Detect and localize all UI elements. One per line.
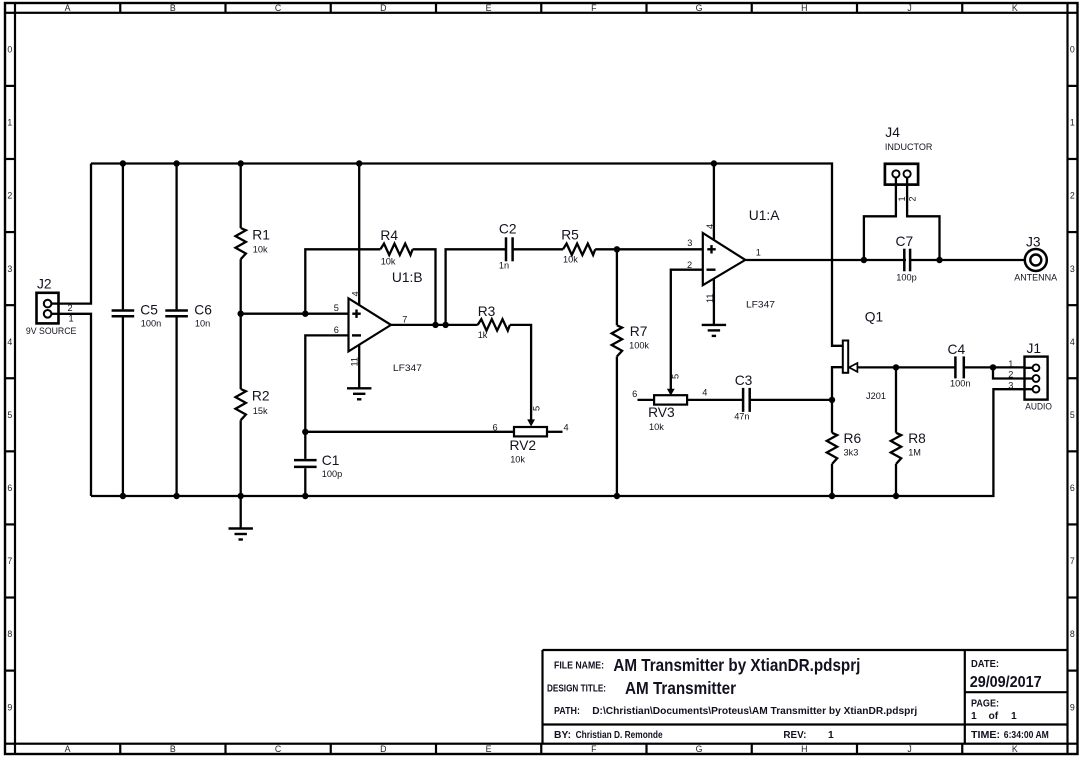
RV2 pin 4 stub	[547, 431, 563, 433]
svg-text:G: G	[696, 744, 703, 754]
svg-text:E: E	[486, 3, 492, 13]
svg-text:B: B	[170, 744, 176, 754]
svg-text:R6: R6	[844, 431, 862, 446]
svg-text:C7: C7	[896, 234, 914, 249]
J1 pin stubs inside box	[1025, 367, 1033, 369]
svg-text:BY:: BY:	[554, 730, 571, 741]
svg-text:REV:: REV:	[783, 730, 806, 741]
svg-text:J201: J201	[866, 391, 886, 401]
svg-text:LF347: LF347	[746, 300, 775, 310]
svg-text:100p: 100p	[896, 272, 916, 282]
svg-text:6: 6	[493, 422, 498, 432]
svg-text:6: 6	[1070, 483, 1075, 493]
resistor R2	[240, 314, 242, 389]
svg-text:R8: R8	[908, 431, 926, 446]
RV2 pin 6 wire from C1 node	[305, 431, 514, 433]
capacitor C2	[505, 237, 508, 261]
svg-text:3: 3	[7, 264, 12, 274]
svg-text:D: D	[380, 744, 386, 754]
wire: pin 2 to RV3 wiper	[671, 270, 703, 389]
resistor R4	[305, 249, 380, 313]
wire: ground bottom rail, riser to J1 pin 3	[91, 389, 1032, 496]
capacitor C3	[742, 388, 745, 412]
svg-text:1: 1	[756, 247, 761, 257]
svg-text:AM Transmitter by XtianDR.pdsp: AM Transmitter by XtianDR.pdsprj	[613, 655, 860, 675]
connector J1 AUDIO	[1025, 357, 1048, 400]
svg-text:G: G	[696, 3, 703, 13]
svg-text:B: B	[170, 3, 176, 13]
svg-text:4: 4	[705, 224, 715, 229]
svg-text:15k: 15k	[253, 406, 268, 416]
svg-text:K: K	[1012, 744, 1018, 754]
svg-text:R3: R3	[478, 304, 496, 319]
capacitor C4	[954, 356, 957, 378]
svg-text:10k: 10k	[649, 422, 664, 432]
wire: left rail upper segment to J2 pin 2	[59, 164, 92, 304]
frame corner ticks	[14, 3, 16, 13]
svg-text:J4: J4	[885, 125, 900, 140]
connector J4 INDUCTOR	[885, 164, 918, 185]
wire: C2 branch riser	[446, 249, 506, 325]
wire: U1:B pin7 output to R3	[391, 324, 478, 326]
svg-text:6: 6	[632, 389, 637, 399]
svg-text:7: 7	[7, 556, 12, 566]
svg-text:2: 2	[687, 260, 692, 270]
svg-text:U1:B: U1:B	[392, 270, 423, 285]
capacitor C1	[304, 432, 306, 459]
svg-text:4: 4	[7, 337, 12, 347]
svg-text:FILE NAME:: FILE NAME:	[554, 660, 604, 671]
svg-text:6:34:00 AM: 6:34:00 AM	[1004, 730, 1049, 741]
svg-text:2: 2	[7, 191, 12, 201]
svg-text:4: 4	[350, 291, 360, 296]
svg-text:of: of	[989, 711, 999, 722]
connector J2	[37, 293, 59, 324]
svg-text:PATH:: PATH:	[554, 706, 580, 717]
svg-text:10n: 10n	[195, 319, 210, 329]
U1:B pin 11 to ground	[358, 345, 360, 389]
svg-text:R7: R7	[630, 324, 648, 339]
svg-text:A: A	[65, 3, 71, 13]
svg-text:E: E	[486, 744, 492, 754]
svg-text:F: F	[591, 3, 597, 13]
svg-text:3: 3	[687, 238, 692, 248]
svg-text:2: 2	[908, 196, 918, 201]
svg-text:100n: 100n	[950, 379, 970, 389]
svg-text:C4: C4	[948, 342, 966, 357]
wire: U1:B pin 6 down to C1 node	[305, 335, 348, 431]
svg-text:1: 1	[971, 711, 977, 722]
svg-text:5: 5	[7, 410, 12, 420]
svg-text:4: 4	[702, 388, 707, 398]
svg-text:J: J	[907, 744, 911, 754]
svg-text:5: 5	[334, 303, 339, 313]
op-amp U1:A	[703, 233, 746, 285]
svg-text:3: 3	[1008, 380, 1013, 390]
svg-text:C5: C5	[140, 303, 158, 318]
svg-text:1: 1	[897, 196, 907, 201]
svg-text:J2: J2	[37, 277, 52, 292]
svg-text:J: J	[907, 3, 911, 13]
op-amp U1:B	[349, 298, 392, 351]
svg-text:8: 8	[7, 629, 12, 639]
svg-text:11: 11	[350, 357, 360, 367]
svg-text:1: 1	[828, 730, 834, 741]
svg-text:1n: 1n	[499, 261, 509, 271]
svg-text:D: D	[380, 3, 386, 13]
row ticks left/right	[5, 85, 15, 87]
title block	[543, 649, 1068, 651]
svg-text:7: 7	[402, 315, 407, 325]
svg-text:2: 2	[1070, 191, 1075, 201]
svg-text:9: 9	[1070, 702, 1075, 712]
svg-text:INDUCTOR: INDUCTOR	[885, 142, 933, 152]
resistor R5	[563, 244, 595, 255]
svg-text:1k: 1k	[478, 330, 488, 340]
U1:A pin 11 to ground	[713, 279, 715, 325]
svg-text:R4: R4	[380, 228, 398, 243]
svg-text:1M: 1M	[908, 447, 921, 457]
svg-text:6: 6	[334, 325, 339, 335]
svg-text:J1: J1	[1027, 341, 1042, 356]
capacitor C6	[175, 164, 177, 310]
svg-text:TIME:: TIME:	[971, 730, 1000, 741]
svg-text:LF347: LF347	[393, 363, 422, 373]
svg-text:R1: R1	[252, 227, 270, 242]
svg-text:F: F	[591, 744, 597, 754]
capacitor C5	[122, 164, 124, 310]
tank branch to J4 inductor	[864, 177, 896, 260]
svg-text:C1: C1	[322, 453, 340, 468]
svg-text:D:\Christian\Documents\Proteus: D:\Christian\Documents\Proteus\AM Transm…	[592, 706, 917, 717]
svg-text:C2: C2	[499, 222, 517, 237]
svg-text:5: 5	[1070, 410, 1075, 420]
svg-text:AUDIO: AUDIO	[1025, 401, 1052, 411]
svg-text:H: H	[801, 744, 807, 754]
U1:A pin 4 power	[713, 164, 715, 241]
junction dots	[120, 160, 126, 166]
resistor R8	[895, 367, 897, 432]
svg-text:100k: 100k	[629, 341, 649, 351]
svg-text:100p: 100p	[322, 469, 342, 479]
svg-text:7: 7	[1070, 556, 1075, 566]
svg-text:AM Transmitter: AM Transmitter	[625, 678, 736, 698]
svg-text:PAGE:: PAGE:	[971, 699, 999, 710]
ground (bottom rail)	[240, 496, 242, 529]
svg-text:C: C	[275, 3, 282, 13]
svg-text:C: C	[275, 744, 282, 754]
column ticks top/bottom	[119, 3, 121, 13]
svg-text:0: 0	[1070, 45, 1075, 55]
svg-text:47n: 47n	[734, 411, 749, 421]
resistor R7	[616, 249, 618, 325]
svg-text:C3: C3	[735, 373, 753, 388]
wire: gate to C4	[857, 366, 955, 368]
svg-text:4: 4	[564, 422, 569, 432]
wire node to pin5	[241, 313, 349, 315]
svg-text:2: 2	[1008, 370, 1013, 380]
svg-text:H: H	[801, 3, 807, 13]
svg-text:1: 1	[1011, 711, 1017, 722]
wire: J2 pin 1 to left rail lower segment down to ground rail	[59, 314, 92, 496]
potentiometer RV2	[514, 427, 547, 436]
svg-text:K: K	[1012, 3, 1018, 13]
svg-text:ANTENNA: ANTENNA	[1014, 273, 1058, 283]
svg-text:5: 5	[532, 406, 542, 411]
transistor Q1 J201	[843, 341, 848, 373]
svg-text:6: 6	[7, 483, 12, 493]
RV3 pin 4 wire to C3	[687, 399, 743, 401]
svg-text:Christian D. Remonde: Christian D. Remonde	[576, 730, 663, 741]
connector J3 ANTENNA	[1025, 249, 1047, 271]
wire: U1:A pin1 output to C7	[745, 259, 906, 261]
svg-text:1: 1	[7, 118, 12, 128]
svg-text:R5: R5	[561, 227, 579, 242]
svg-text:C6: C6	[194, 303, 212, 318]
resistor R1	[240, 164, 242, 229]
svg-text:29/09/2017: 29/09/2017	[970, 674, 1042, 691]
svg-text:Q1: Q1	[865, 309, 883, 324]
svg-text:4: 4	[1070, 337, 1075, 347]
svg-text:9V SOURCE: 9V SOURCE	[26, 326, 77, 336]
svg-text:3: 3	[1070, 264, 1075, 274]
resistor R3	[478, 319, 510, 330]
svg-text:U1:A: U1:A	[749, 208, 780, 223]
svg-text:2: 2	[68, 303, 73, 313]
svg-text:DATE:: DATE:	[971, 659, 999, 670]
RV3 pin 6 stub	[638, 399, 655, 401]
svg-text:10k: 10k	[253, 245, 268, 255]
svg-text:RV2: RV2	[510, 438, 537, 453]
Q1 source stub and column to R6	[832, 367, 843, 433]
wire: jog to J1 pin 2	[993, 367, 1032, 378]
svg-text:11: 11	[705, 293, 715, 303]
svg-text:3k3: 3k3	[844, 447, 859, 457]
svg-text:1: 1	[1008, 359, 1013, 369]
svg-text:R2: R2	[252, 389, 270, 404]
wire: +9V top rail from left rail to Q1 drain column	[91, 164, 843, 346]
svg-text:1: 1	[1070, 118, 1075, 128]
svg-text:9: 9	[7, 702, 12, 712]
potentiometer RV3	[654, 395, 687, 404]
svg-text:100n: 100n	[141, 319, 161, 329]
svg-text:0: 0	[7, 45, 12, 55]
svg-text:DESIGN TITLE:: DESIGN TITLE:	[547, 683, 606, 694]
Q1 gate arrow	[849, 363, 857, 372]
ground U1:B	[347, 387, 371, 389]
svg-text:5: 5	[670, 374, 680, 379]
svg-text:10k: 10k	[563, 255, 578, 265]
svg-text:1: 1	[69, 313, 74, 323]
svg-text:A: A	[65, 744, 71, 754]
capacitor C7	[903, 249, 906, 272]
U1:B pin 4 power	[358, 164, 360, 306]
ground U1:A	[702, 324, 726, 326]
resistor R6	[827, 433, 837, 464]
svg-text:10k: 10k	[381, 257, 396, 267]
svg-text:8: 8	[1070, 629, 1075, 639]
svg-text:10k: 10k	[510, 455, 525, 465]
svg-text:RV3: RV3	[648, 405, 675, 420]
svg-text:J3: J3	[1026, 235, 1041, 250]
